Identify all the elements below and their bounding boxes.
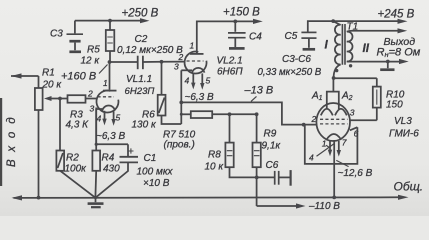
node junction cathode/C1 branch (95, 143, 98, 146)
wire anode node to R10 (334, 77, 377, 79)
svg-text:Rн=8 Ом: Rн=8 Ом (377, 47, 421, 60)
heater pins VL3 (1,7) (328, 141, 341, 157)
svg-text:С1: С1 (144, 153, 157, 164)
wire R1 bottom to common rail (38, 110, 40, 198)
svg-text:1: 1 (322, 139, 327, 149)
svg-text:130 к: 130 к (132, 120, 157, 131)
svg-text:7: 7 (342, 137, 347, 147)
svg-text:~12,6 В: ~12,6 В (338, 168, 373, 179)
triode VL2.1 cathode (181, 68, 204, 73)
svg-text:6Н23П: 6Н23П (125, 86, 155, 97)
ground (main) (88, 198, 104, 208)
wire R3 to VL1.1 grid (86, 98, 97, 100)
triode VL2.1 anode and +150V feed (190, 19, 263, 54)
node junction R5/+250V (108, 19, 112, 23)
svg-text:~6,3 В: ~6,3 В (96, 131, 126, 142)
svg-text:VL1.1: VL1.1 (126, 74, 152, 85)
wire output top with arrow (353, 28, 407, 33)
tetrode VL3 control grid (pin 2) (320, 123, 348, 125)
tetrode VL3 anode yoke A1 A2 (327, 78, 339, 109)
tetrode VL3 screen grid (pin 3) (320, 118, 348, 120)
svg-text:С6: С6 (266, 160, 279, 171)
capacitor C6 (257, 170, 291, 186)
svg-text:VL2.1: VL2.1 (217, 56, 243, 67)
tetrode VL3 envelope (316, 103, 350, 141)
node junction VL1 anode / C2 (108, 60, 112, 64)
triode VL2.1 grid (187, 60, 204, 62)
wire pin 6 to heater box (350, 127, 358, 130)
heater pins VL1.1 (4,5) (102, 111, 116, 126)
node junction wire/R9 (255, 112, 259, 116)
triode VL1.1 grid (98, 96, 115, 98)
heater pins VL2.1 (4,5) (191, 73, 204, 90)
resistor R4 430 (92, 108, 100, 171)
capacitor C5 and +245V rail (301, 19, 407, 50)
svg-text:3: 3 (90, 104, 95, 114)
node junction R8/R9/C6 (255, 176, 259, 180)
svg-text:150: 150 (386, 100, 403, 111)
wire +250V rail (75, 18, 150, 23)
wire R10 to VL3 screen grid (350, 119, 377, 121)
svg-text:3: 3 (174, 62, 179, 72)
node junction ground/common rail (94, 196, 97, 199)
svg-text:(пров.): (пров.) (164, 140, 195, 151)
svg-text:1: 1 (103, 78, 108, 88)
wire anode node to C2 (110, 61, 138, 63)
resistor R1 20k potentiometer (35, 88, 60, 110)
node junction cathode/-13V wire (179, 101, 183, 105)
wire -13V rail (181, 102, 316, 124)
node junction C2/R6/VL2 grid (160, 60, 164, 64)
node junction R1/common rail (37, 196, 41, 200)
wire VL2.1 cathode down (180, 70, 182, 124)
transformer T1 core (342, 24, 345, 65)
svg-text:R2: R2 (66, 153, 79, 164)
svg-text:R9: R9 (264, 129, 277, 140)
svg-text:2: 2 (311, 114, 317, 124)
svg-text:ГМИ-6: ГМИ-6 (389, 129, 419, 140)
resistor R8 10k (225, 114, 256, 177)
svg-text:100к: 100к (65, 164, 88, 175)
page edge artifact left (0, 98, 2, 186)
wire output bottom with arrow (353, 59, 409, 64)
node junction R7/R8 (228, 112, 232, 116)
svg-text:R4: R4 (102, 153, 115, 164)
svg-text:R1: R1 (42, 68, 55, 79)
svg-text:VL3: VL3 (394, 116, 412, 127)
capacitor C3 (67, 21, 84, 52)
wire -110V with arrow (257, 203, 306, 208)
svg-text:10 к: 10 к (205, 162, 225, 173)
wire R2 bottom diagonal to ground point (60, 171, 95, 198)
wire heater box (right/bottom/left) (305, 125, 358, 164)
pointer pin 4 (317, 144, 335, 156)
capacitor C4 (228, 21, 246, 48)
svg-text:–110 В: –110 В (308, 201, 340, 212)
svg-text:2: 2 (178, 52, 184, 62)
triode VL2.1 envelope (185, 52, 207, 74)
svg-text:С3: С3 (50, 29, 63, 40)
wire VL1.1 cathode down (to R4) (95, 109, 97, 144)
wire cathode branch to C1 (96, 143, 128, 145)
triode VL1.1 anode (103, 62, 117, 91)
svg-text:6Н6П: 6Н6П (217, 67, 243, 78)
resistor R10 150 (373, 78, 381, 120)
node junction cathode/common rail (332, 196, 336, 200)
resistor R7 510 (180, 111, 257, 118)
svg-text:430: 430 (103, 164, 120, 175)
svg-text:9,1к: 9,1к (262, 141, 282, 152)
svg-text:С5: С5 (285, 31, 298, 42)
svg-text:С2: С2 (135, 34, 148, 45)
transformer T1 primary winding I (333, 21, 340, 78)
svg-text:4,3 К: 4,3 К (66, 120, 90, 131)
wire common rail (Общ.) (12, 195, 409, 201)
svg-text:II: II (363, 43, 370, 55)
svg-text:–13 В: –13 В (244, 85, 274, 97)
svg-text:+250 В: +250 В (122, 8, 159, 20)
node junction C4/+150V (233, 20, 237, 24)
svg-text:4: 4 (185, 76, 190, 86)
svg-text:20 к: 20 к (42, 80, 63, 91)
wire R4 bottom to ground point (94, 171, 97, 198)
svg-text:4: 4 (309, 153, 314, 163)
node phase dot secondary (349, 64, 352, 67)
wire C2 to VL2.1 grid (143, 61, 185, 63)
node phase dot primary (335, 69, 338, 72)
ground (output) (380, 62, 394, 70)
svg-text:С3-С6: С3-С6 (282, 54, 311, 65)
svg-text:5: 5 (206, 76, 211, 86)
resistor R3 4.3k (68, 95, 86, 103)
node junction output/ground (386, 60, 390, 64)
triode VL1.1 cathode (96, 105, 115, 110)
svg-text:5: 5 (116, 113, 121, 123)
resistor R5 12k (106, 21, 115, 62)
svg-text:×10 В: ×10 В (143, 178, 170, 189)
tetrode VL3 cathode (326, 134, 341, 140)
triode VL1.1 envelope (96, 91, 118, 113)
resistor R9 9.1k (253, 114, 261, 206)
resistor R6 130k (158, 62, 182, 124)
svg-text:12 к: 12 к (81, 56, 101, 67)
svg-text:2: 2 (87, 89, 93, 99)
svg-text:Т1: Т1 (347, 22, 359, 33)
pointer -13V (251, 96, 257, 101)
svg-text:~6,3 В: ~6,3 В (185, 92, 215, 103)
pointer +160V (99, 65, 108, 74)
svg-text:+160 В: +160 В (61, 71, 96, 83)
node junction VL3 anode / primary (332, 76, 336, 80)
svg-text:0,12 мк×250 В: 0,12 мк×250 В (117, 45, 183, 56)
pointer ~12.6V (336, 160, 348, 166)
wire input to R1 top (38, 76, 40, 88)
svg-text:С4: С4 (249, 32, 262, 43)
svg-text:+150 В: +150 В (223, 7, 260, 19)
svg-text:3: 3 (350, 108, 355, 118)
node input terminal (top arrow, Вход) (11, 73, 39, 78)
resistor R2 100k (56, 99, 64, 171)
node junction T1 primary/+245V (331, 19, 335, 23)
svg-text:4: 4 (97, 114, 102, 124)
svg-text:6: 6 (354, 129, 359, 139)
wire VL3 cathode to common rail (333, 140, 335, 197)
svg-text:+245 В: +245 В (378, 9, 415, 21)
capacitor C1 100uF (electrolytic, + mark) (96, 144, 138, 197)
node junction box/grid wire (302, 123, 306, 127)
svg-text:R5: R5 (87, 45, 100, 56)
svg-text:Общ.: Общ. (394, 180, 424, 194)
node junction wiper/R2 (58, 97, 62, 101)
svg-text:R8: R8 (208, 150, 221, 161)
capacitor C2 0.12uF (138, 56, 143, 69)
transformer T1 secondary winding II (347, 31, 353, 62)
svg-text:100 мкх: 100 мкх (137, 167, 174, 178)
svg-text:Вход: Вход (6, 109, 18, 167)
svg-text:0,33 мк×250 В: 0,33 мк×250 В (258, 67, 322, 78)
svg-text:1: 1 (190, 41, 195, 51)
tetrode VL3 anode plates (321, 109, 347, 116)
wire grid node to R3 (60, 98, 68, 100)
